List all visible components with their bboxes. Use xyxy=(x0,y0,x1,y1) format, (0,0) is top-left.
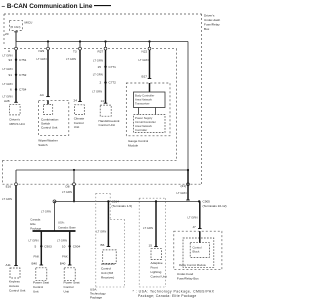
connector C772 xyxy=(104,81,106,83)
junction dot C905 xyxy=(198,200,200,202)
svg-text:LT GRN: LT GRN xyxy=(188,216,198,220)
svg-text:Box: Box xyxy=(204,27,210,31)
svg-text:Relay Control Module: Relay Control Module xyxy=(179,263,206,267)
terminal at A4 xyxy=(46,96,50,98)
terminal at A28 xyxy=(14,101,18,103)
svg-text:C905: C905 xyxy=(203,199,211,203)
svg-text:Under-hood: Under-hood xyxy=(177,272,194,276)
svg-text:N22: N22 xyxy=(142,49,148,53)
svg-text:B40: B40 xyxy=(60,262,66,266)
connector circle at border pin D8 xyxy=(73,183,76,186)
svg-text:Block: Block xyxy=(193,250,200,254)
MICU dashed box xyxy=(9,20,22,30)
fuse box dashed outline: Driver's Under-dash Fuse/Relay Box top band xyxy=(3,14,202,184)
wire drop C904 xyxy=(69,231,71,265)
wire drop E16 xyxy=(15,170,17,184)
svg-text:Receiver): Receiver) xyxy=(101,275,114,279)
svg-text:Lighting: Lighting xyxy=(151,270,162,274)
svg-text:D8: D8 xyxy=(66,185,70,189)
connector circle at border pin T3 xyxy=(79,47,82,50)
svg-text:LT GRN: LT GRN xyxy=(93,73,103,77)
svg-text:Controller: Controller xyxy=(135,128,147,132)
svg-text:Elite: Elite xyxy=(30,222,36,226)
svg-text:T3: T3 xyxy=(73,49,77,53)
svg-text:Package: Package xyxy=(90,295,102,299)
junction dot C514 xyxy=(107,200,109,202)
svg-text:Unit: Unit xyxy=(33,290,39,294)
connector C771 xyxy=(104,66,106,68)
svg-text:Under-dash: Under-dash xyxy=(204,18,220,22)
svg-text:LT GRN: LT GRN xyxy=(143,226,153,230)
svg-text:C771: C771 xyxy=(109,65,117,69)
connector circle at border pin R27 xyxy=(104,47,107,50)
svg-text:Gauge Control: Gauge Control xyxy=(128,139,148,143)
svg-text:Unit (XM: Unit (XM xyxy=(101,271,113,275)
connector circle at border pin D1 xyxy=(187,183,190,186)
svg-text:C904: C904 xyxy=(73,245,81,249)
svg-text:A28: A28 xyxy=(4,99,10,103)
svg-text:Driver's: Driver's xyxy=(10,118,21,122)
svg-text:PNK: PNK xyxy=(62,255,68,259)
junction dots on top bus xyxy=(47,40,49,42)
terminal at B6 xyxy=(107,246,111,248)
Gauge Control Module dashed box xyxy=(126,83,170,136)
svg-text:LT GRN: LT GRN xyxy=(2,197,12,201)
svg-text:15: 15 xyxy=(149,244,153,248)
connector circle at border pin N29 xyxy=(47,47,50,50)
fuse box right dashed border xyxy=(201,14,203,184)
main bus vertical wire xyxy=(187,42,189,171)
svg-text:LT GRN: LT GRN xyxy=(37,57,47,61)
svg-text:LT GRN: LT GRN xyxy=(57,239,67,243)
svg-text:Switch: Switch xyxy=(38,143,47,147)
Climate Control Unit box xyxy=(75,105,85,115)
svg-text:B40: B40 xyxy=(32,262,38,266)
wire drop J7 xyxy=(199,201,201,228)
svg-text:LT GRN: LT GRN xyxy=(41,210,51,214)
svg-text:Control Unit: Control Unit xyxy=(41,125,57,129)
Driver's MPCS Unit dashed box xyxy=(10,105,21,115)
Combination Switch Control Unit solid box xyxy=(43,104,52,114)
svg-text:PNK: PNK xyxy=(34,255,40,259)
Under-hood Fuse/Relay Box outer dashed box xyxy=(174,231,222,269)
svg-text:LT GRN: LT GRN xyxy=(3,67,13,71)
svg-text:Control Unit: Control Unit xyxy=(9,289,25,293)
svg-text:(21): (21) xyxy=(181,184,187,188)
option bar xyxy=(33,230,76,232)
wire drop to option bar xyxy=(54,201,56,231)
terminal at J7 xyxy=(198,228,202,230)
svg-text:93: 93 xyxy=(9,58,13,62)
Combination Switch dashed box xyxy=(39,100,69,135)
svg-text:Driver's: Driver's xyxy=(204,14,215,18)
terminal at MICU pin 20 xyxy=(14,31,18,33)
svg-text:Package: Package xyxy=(30,226,41,230)
wire drop C903 xyxy=(40,231,42,265)
svg-text:20: 20 xyxy=(5,32,9,36)
svg-text:Wiper/Washer: Wiper/Washer xyxy=(38,139,57,143)
wire drop N22 to gauge xyxy=(149,42,151,49)
svg-text:Fuse/Relay: Fuse/Relay xyxy=(204,23,220,27)
svg-text:B6: B6 xyxy=(101,243,105,247)
wire drop A xyxy=(15,42,17,49)
wire into combination switch xyxy=(47,100,49,104)
terminal at B17 xyxy=(148,78,152,80)
svg-text:Package; Canada: Elite Package: Package; Canada: Elite Package xyxy=(138,294,197,298)
terminal at A11 xyxy=(14,265,18,267)
connecting lines between transceiver and controller xyxy=(138,108,140,115)
wire drop D8 xyxy=(73,170,75,184)
svg-text:Unit: Unit xyxy=(74,125,80,129)
top bus wire xyxy=(16,41,188,43)
connector C752 xyxy=(15,74,17,76)
svg-text:Control Unit: Control Unit xyxy=(151,275,167,279)
wire drop N29 xyxy=(47,42,49,49)
svg-text:C751: C751 xyxy=(19,58,27,62)
svg-text:R27: R27 xyxy=(98,49,104,53)
connector circle at border pin A xyxy=(15,47,18,50)
svg-text:MPCS Unit: MPCS Unit xyxy=(10,122,25,126)
svg-text:Transceiver: Transceiver xyxy=(135,102,150,106)
terminal at pin 14 xyxy=(104,102,108,104)
svg-text:LT GRN: LT GRN xyxy=(93,58,103,62)
wire MICU to bus xyxy=(15,32,17,42)
svg-text:C754: C754 xyxy=(19,88,27,92)
svg-text:Front: Front xyxy=(151,266,158,270)
svg-text:C772: C772 xyxy=(109,80,117,84)
svg-text:Power Seat: Power Seat xyxy=(64,281,80,285)
svg-text:15: 15 xyxy=(98,65,102,69)
inner dashed box xyxy=(183,238,214,267)
terminal at C905 xyxy=(186,199,190,201)
svg-text:MICU: MICU xyxy=(25,21,33,25)
wire into control block xyxy=(199,231,201,243)
svg-text:C752: C752 xyxy=(19,73,27,77)
Body Controller Area Network Transceiver box xyxy=(134,92,166,108)
Power Seat Control Unit dashed box 1 xyxy=(36,268,47,281)
connector circle at border pin N22 xyxy=(148,47,151,50)
title rule xyxy=(94,5,111,7)
svg-text:(B CAN): (B CAN) xyxy=(10,25,20,29)
svg-text:– B-CAN Communication Line: – B-CAN Communication Line xyxy=(2,3,93,10)
svg-text:LT GRN: LT GRN xyxy=(62,190,72,194)
svg-text:Keyless: Keyless xyxy=(9,280,20,284)
wire into gauge module xyxy=(149,83,151,92)
terminal xyxy=(68,264,72,266)
AcuraLink Control Unit dashed box xyxy=(103,250,117,264)
Adaptive Front Lighting dashed box xyxy=(151,249,161,260)
svg-text:LT GRN: LT GRN xyxy=(139,58,149,62)
svg-text:LT GRN: LT GRN xyxy=(177,191,187,195)
svg-text:Access: Access xyxy=(9,284,19,288)
USA Technology Package dashed region xyxy=(96,193,125,287)
main bus wire to C905 xyxy=(187,170,189,184)
connector C751 xyxy=(15,59,17,61)
svg-text:(Terminals 1-5): (Terminals 1-5) xyxy=(112,204,133,208)
svg-text:10: 10 xyxy=(62,245,66,249)
Keyless Access Control Unit dashed box xyxy=(10,268,20,278)
svg-text:LT GRN: LT GRN xyxy=(29,239,39,243)
svg-text:(Terminals 10-12): (Terminals 10-12) xyxy=(203,204,227,208)
svg-text:B17: B17 xyxy=(142,74,148,78)
svg-text:Control: Control xyxy=(101,266,111,270)
svg-text:2: 2 xyxy=(100,80,102,84)
svg-text:N29: N29 xyxy=(39,49,45,53)
svg-text:LT GRN: LT GRN xyxy=(92,89,102,93)
svg-text:LT GRN: LT GRN xyxy=(3,82,13,86)
svg-text:Control: Control xyxy=(64,285,74,289)
svg-text:LT GRN: LT GRN xyxy=(96,229,106,233)
svg-text:Power Seat: Power Seat xyxy=(33,281,49,285)
connector circle junction D8 to run xyxy=(53,200,56,203)
svg-text:Control: Control xyxy=(33,285,43,289)
wire drop R27 xyxy=(105,42,107,49)
svg-text:C903: C903 xyxy=(44,245,52,249)
svg-text:Module: Module xyxy=(128,144,138,148)
svg-text:LT GRN: LT GRN xyxy=(3,94,13,98)
svg-text:C514: C514 xyxy=(112,199,120,203)
svg-text:A11: A11 xyxy=(6,263,12,267)
horizontal run wire xyxy=(55,200,200,202)
svg-text:91: 91 xyxy=(9,73,13,77)
svg-text:Canada: Base: Canada: Base xyxy=(58,225,76,229)
svg-text:Unit: Unit xyxy=(64,290,70,294)
bottom bus wire xyxy=(16,169,188,171)
Control Block solid box xyxy=(190,243,209,258)
svg-text:14: 14 xyxy=(101,99,105,103)
svg-text:E16: E16 xyxy=(6,185,12,189)
terminal at pin 24 xyxy=(78,101,82,103)
fuse box bottom band xyxy=(3,159,177,161)
svg-text:A4: A4 xyxy=(40,93,44,97)
svg-text:AcuraLink: AcuraLink xyxy=(101,262,115,266)
junction dot bottom bus D8 xyxy=(73,169,75,171)
terminal xyxy=(40,264,44,266)
connector C754 xyxy=(15,88,17,90)
svg-text:Fuse/Relay Box: Fuse/Relay Box xyxy=(177,276,199,280)
svg-text:USA:: USA: xyxy=(58,221,65,225)
wire drop adaptive front lighting xyxy=(155,201,157,246)
asterisk region dashed box xyxy=(139,198,165,287)
wire drop T3 xyxy=(79,42,81,49)
svg-text:J7: J7 xyxy=(193,225,197,229)
svg-text:24: 24 xyxy=(74,98,78,102)
junction dot adaptive drop xyxy=(155,200,157,202)
svg-text:LT GRN: LT GRN xyxy=(3,54,13,58)
svg-text:6: 6 xyxy=(10,88,12,92)
connector C903 xyxy=(40,245,42,247)
svg-text:Control Unit: Control Unit xyxy=(99,123,115,127)
connector C904 xyxy=(69,245,71,247)
terminal at pin 15 xyxy=(154,246,158,248)
Power Seat Control Unit dashed box 2 xyxy=(64,268,75,281)
svg-text:LT GRN: LT GRN xyxy=(66,57,76,61)
svg-text:Canada:: Canada: xyxy=(30,218,41,222)
connector circle at border pin E16 xyxy=(15,183,18,186)
svg-text:Adaptive: Adaptive xyxy=(151,261,163,265)
HandsFreeLink Control Unit box xyxy=(100,105,111,116)
svg-text:5: 5 xyxy=(35,245,37,249)
Power Supply Circuit/Controller Area Network Controller dashed box xyxy=(134,115,166,133)
wire drop C514 to AcuraLink xyxy=(107,201,109,246)
